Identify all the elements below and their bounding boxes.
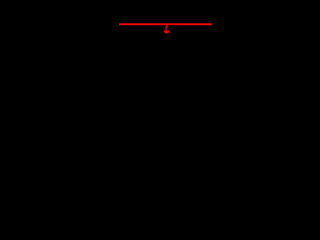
red downward arrow (164, 25, 169, 33)
red horizontal annotation line (119, 23, 212, 25)
